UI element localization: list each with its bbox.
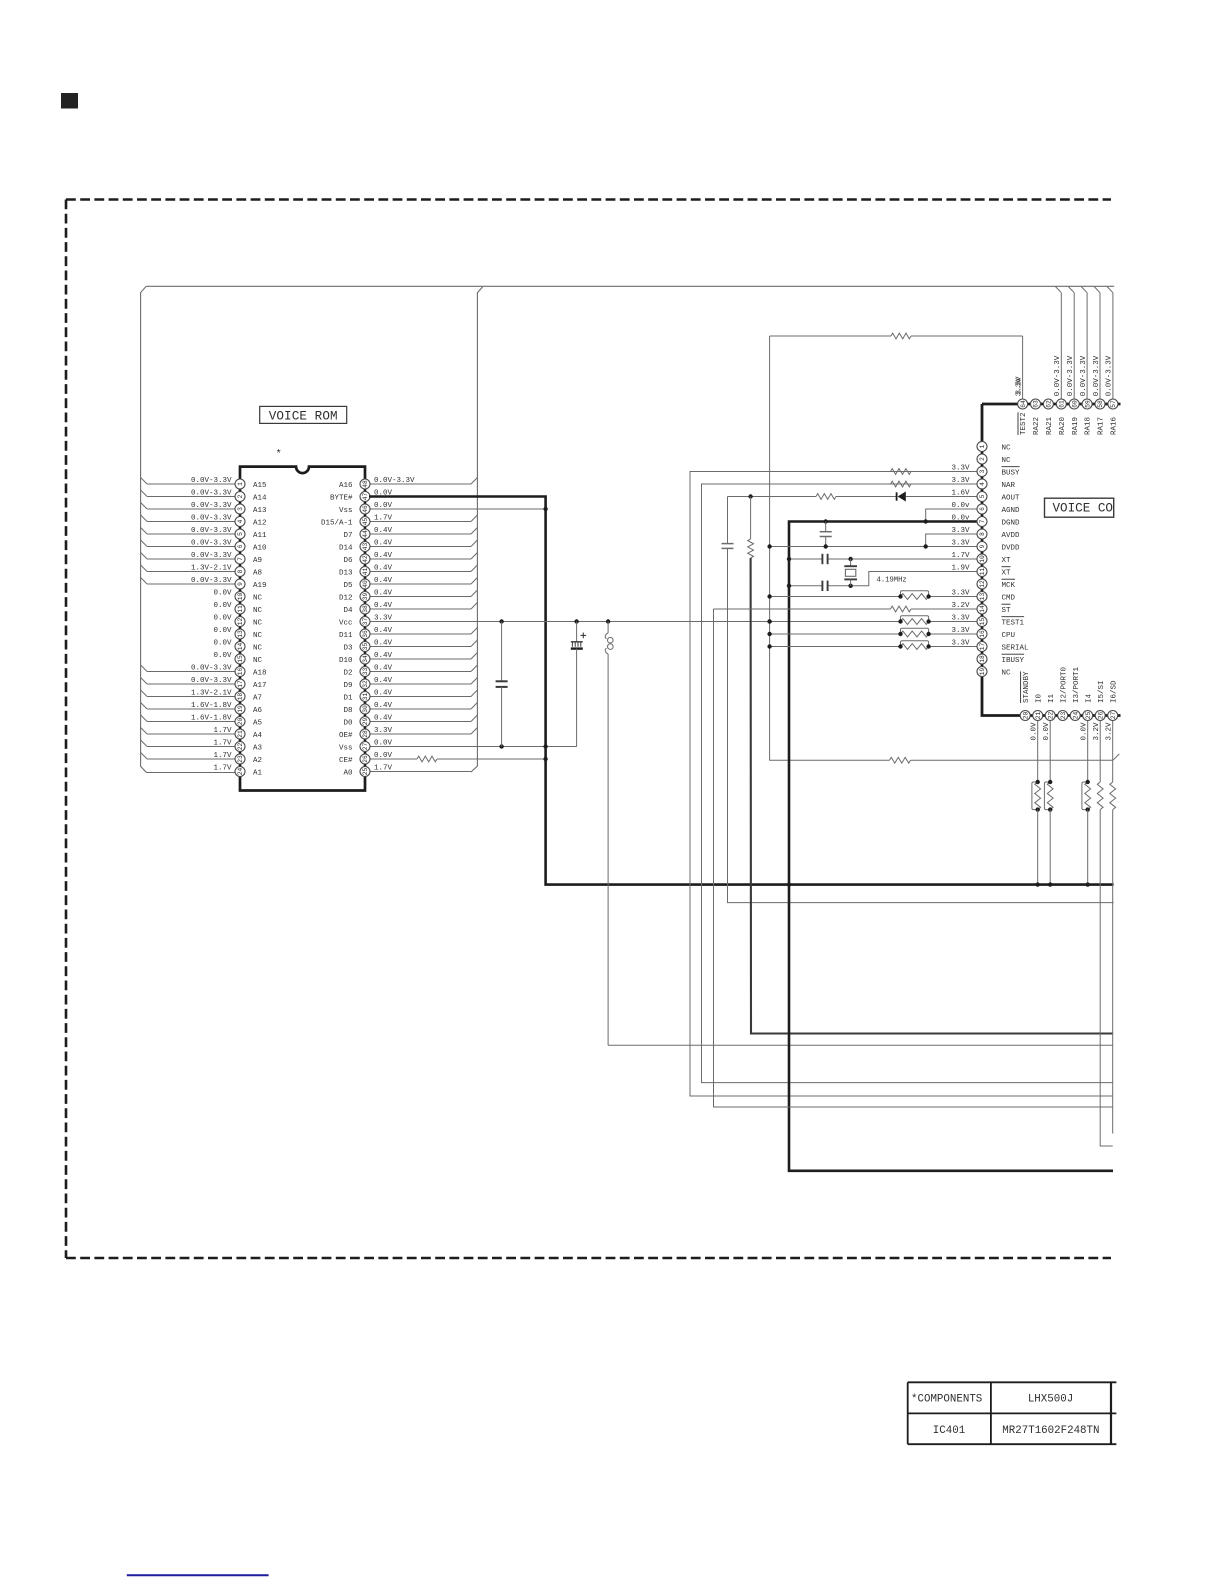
svg-text:48: 48 — [362, 480, 369, 488]
svg-text:0.4V: 0.4V — [374, 689, 393, 697]
svg-text:26: 26 — [1097, 712, 1104, 720]
svg-text:3.3V: 3.3V — [951, 589, 970, 597]
svg-text:0.0V-3.3V: 0.0V-3.3V — [191, 552, 232, 560]
capacitor C (Vcc bypass) — [496, 622, 508, 747]
svg-text:D12: D12 — [339, 594, 353, 602]
svg-text:28: 28 — [362, 730, 369, 738]
svg-text:3.2V: 3.2V — [1106, 722, 1114, 741]
svg-text:I1: I1 — [1048, 693, 1056, 703]
svg-text:17: 17 — [979, 643, 986, 651]
svg-text:27: 27 — [362, 743, 369, 751]
svg-text:0.4V: 0.4V — [374, 664, 393, 672]
svg-text:RA17: RA17 — [1098, 417, 1106, 435]
svg-text:VOICE CO: VOICE CO — [1053, 502, 1113, 516]
svg-text:0.0V: 0.0V — [213, 652, 232, 660]
sheet section mark (black square) — [61, 93, 78, 109]
IC401 pin 43 D14 — [339, 539, 477, 552]
IC401 pin 3 A13 — [141, 502, 267, 515]
svg-text:25: 25 — [362, 768, 369, 776]
resistor TEST2 pull-up — [891, 333, 911, 339]
svg-text:D1: D1 — [343, 694, 353, 702]
svg-text:1.7V: 1.7V — [951, 552, 970, 560]
svg-text:1: 1 — [237, 482, 244, 486]
svg-text:0.0V-3.3V: 0.0V-3.3V — [191, 677, 232, 685]
VOICE CONTROLLER pin 63 RA22 — [1031, 399, 1042, 435]
svg-text:D0: D0 — [343, 719, 353, 727]
capacitor C (AVDD bypass) — [820, 522, 832, 547]
svg-text:23: 23 — [237, 755, 244, 763]
svg-text:I5/SI: I5/SI — [1098, 680, 1106, 703]
wire CPU pin16 — [770, 633, 977, 635]
svg-text:A8: A8 — [253, 569, 262, 577]
svg-text:59: 59 — [1084, 400, 1091, 408]
svg-text:3.2V: 3.2V — [1093, 722, 1101, 741]
IC401 pin 48 A16 — [339, 477, 477, 490]
svg-text:NC: NC — [253, 644, 263, 652]
svg-text:13: 13 — [237, 630, 244, 638]
resistor on rail branch — [890, 754, 1120, 763]
svg-text:0.0V-3.3V: 0.0V-3.3V — [191, 489, 232, 497]
svg-text:AGND: AGND — [1002, 507, 1021, 515]
svg-text:BYTE#: BYTE# — [330, 494, 353, 502]
VOICE CONTROLLER pin 7 DGND — [951, 514, 1020, 527]
VOICE CONTROLLER pin 19 NC — [977, 667, 1011, 678]
svg-text:40: 40 — [362, 580, 369, 588]
IC401 pin 36 D11 — [339, 627, 477, 640]
svg-text:A19: A19 — [253, 582, 267, 590]
svg-text:9: 9 — [237, 582, 244, 586]
svg-text:D8: D8 — [343, 707, 352, 715]
svg-text:7: 7 — [237, 557, 244, 561]
IC401 pin 35 D3 — [343, 639, 477, 652]
junction Vss pin27 — [499, 744, 547, 748]
svg-text:RA22: RA22 — [1033, 417, 1041, 435]
svg-text:0.4V: 0.4V — [374, 677, 393, 685]
svg-text:60: 60 — [1071, 400, 1078, 408]
svg-text:A0: A0 — [343, 769, 353, 777]
svg-text:1: 1 — [979, 444, 986, 448]
svg-text:AOUT: AOUT — [1002, 494, 1021, 502]
IC401 pin 31 D1 — [343, 689, 477, 702]
wire NAR net — [702, 484, 1114, 1083]
IC401 pin 33 D2 — [343, 664, 477, 677]
IC401 pin 29 D0 — [343, 714, 477, 727]
svg-text:*: * — [276, 449, 282, 461]
resistor CMD — [767, 591, 930, 600]
IC401 pin 8 A8 — [141, 564, 262, 577]
VOICE CONTROLLER pin 23 I2/PORT0 — [1058, 666, 1069, 720]
svg-text:D10: D10 — [339, 657, 353, 665]
svg-text:0.4V: 0.4V — [374, 564, 393, 572]
IC401 pin 24 A1 — [146, 764, 262, 777]
svg-text:RA19: RA19 — [1072, 417, 1080, 435]
svg-text:RA21: RA21 — [1046, 416, 1054, 435]
VOICE CONTROLLER pin 18 IBUSY — [977, 654, 1025, 665]
IC401 pin 15 NC — [213, 652, 262, 665]
svg-text:0.4V: 0.4V — [374, 652, 393, 660]
address bus left side — [141, 286, 147, 772]
VOICE CONTROLLER pin 64 TEST2 — [1015, 378, 1028, 435]
svg-text:16: 16 — [979, 630, 986, 638]
svg-text:TEST1: TEST1 — [1002, 619, 1025, 627]
svg-text:62: 62 — [1046, 400, 1053, 408]
svg-text:18: 18 — [979, 655, 986, 663]
svg-text:4: 4 — [237, 519, 244, 523]
svg-text:21: 21 — [237, 730, 244, 738]
svg-text:ST: ST — [1002, 607, 1012, 615]
IC401 pin 16 A18 — [141, 664, 267, 677]
svg-text:0.0V-3.3V: 0.0V-3.3V — [1054, 355, 1062, 396]
svg-text:A18: A18 — [253, 669, 267, 677]
svg-text:STANDBY: STANDBY — [1023, 671, 1031, 703]
svg-text:15: 15 — [979, 618, 986, 626]
svg-text:22: 22 — [1047, 712, 1054, 720]
svg-text:34: 34 — [362, 655, 369, 663]
svg-text:42: 42 — [362, 555, 369, 563]
svg-text:A5: A5 — [253, 719, 263, 727]
svg-text:0.0V-3.3V: 0.0V-3.3V — [191, 477, 232, 485]
IC401 pin 25 A0 — [343, 764, 470, 777]
resistor AOUT shunt (vertical) — [748, 497, 1113, 1034]
IC401 pin 37 Vcc — [339, 614, 393, 627]
svg-text:15: 15 — [237, 655, 244, 663]
svg-text:4.19MHz: 4.19MHz — [877, 577, 907, 585]
svg-text:11: 11 — [979, 568, 986, 576]
svg-text:12: 12 — [237, 618, 244, 626]
VOICE CONTROLLER pin 8 AVDD — [951, 527, 1020, 540]
svg-text:NC: NC — [253, 657, 263, 665]
IC401 pin 27 Vss — [339, 739, 577, 752]
svg-text:NC: NC — [253, 594, 263, 602]
svg-text:0.4V: 0.4V — [374, 539, 393, 547]
svg-text:3: 3 — [237, 507, 244, 511]
svg-text:1.7V: 1.7V — [213, 764, 232, 772]
IC401 pin 47 BYTE# — [330, 489, 393, 502]
svg-text:21: 21 — [1035, 712, 1042, 720]
IC401 pin 12 NC — [213, 614, 262, 627]
capacitor C electrolytic (+) — [571, 622, 586, 747]
svg-text:19: 19 — [979, 668, 986, 676]
junction TEST1 rail — [767, 619, 771, 623]
svg-text:RA16: RA16 — [1111, 416, 1119, 435]
diode D (AOUT clamp) — [897, 492, 906, 502]
wire AGND pin6 — [926, 509, 977, 522]
IC401 pin 5 A11 — [141, 527, 267, 540]
svg-text:RA18: RA18 — [1085, 417, 1093, 435]
svg-text:36: 36 — [362, 630, 369, 638]
VOICE CONTROLLER pin 4 NAR — [951, 477, 1015, 490]
svg-text:D7: D7 — [343, 532, 352, 540]
svg-text:0.0V-3.3V: 0.0V-3.3V — [191, 664, 232, 672]
svg-text:33: 33 — [362, 668, 369, 676]
svg-text:18: 18 — [237, 693, 244, 701]
capacitor C (/XT) — [822, 581, 827, 591]
svg-text:Vcc: Vcc — [339, 619, 353, 627]
resistor CPU — [767, 628, 930, 637]
svg-text:SERIAL: SERIAL — [1002, 644, 1030, 652]
IC401 pin 46 Vss — [339, 502, 546, 515]
svg-text:A6: A6 — [253, 707, 263, 715]
wire AVDD pin8 — [926, 534, 977, 547]
VOICE CONTROLLER pin 58 RA17 — [1093, 287, 1106, 436]
junction Vcc/bypass caps — [499, 619, 771, 623]
svg-text:41: 41 — [362, 568, 369, 576]
svg-text:0.0V: 0.0V — [374, 739, 393, 747]
svg-text:3.3V: 3.3V — [951, 464, 970, 472]
wire 3.3V rail vertical — [770, 336, 890, 760]
svg-text:0.0V-3.3V: 0.0V-3.3V — [1080, 355, 1088, 396]
svg-text:14: 14 — [979, 605, 986, 613]
IC401 pin 1 A15 — [141, 477, 267, 490]
svg-text:*COMPONENTS: *COMPONENTS — [911, 1394, 982, 1406]
svg-text:0.0V-3.3V: 0.0V-3.3V — [191, 539, 232, 547]
svg-text:6: 6 — [237, 544, 244, 548]
wire XT pin10 — [789, 558, 977, 560]
wire Vcc 3.3V net (ROM pin37 to TEST1) — [370, 621, 977, 623]
svg-text:A12: A12 — [253, 519, 267, 527]
svg-text:I0: I0 — [1035, 693, 1043, 703]
VOICE CONTROLLER pin 6 AGND — [951, 502, 1020, 515]
svg-text:58: 58 — [1097, 400, 1104, 408]
svg-text:D5: D5 — [343, 582, 353, 590]
svg-text:D6: D6 — [343, 557, 353, 565]
svg-text:63: 63 — [1033, 400, 1040, 408]
svg-text:OE#: OE# — [339, 732, 353, 740]
wire CMD pin13 — [770, 596, 977, 598]
VOICE CONTROLLER pin 2 NC — [977, 454, 1011, 465]
svg-text:0.0V: 0.0V — [374, 752, 393, 760]
components table — [908, 1382, 1117, 1444]
VOICE CONTROLLER pin 13 CMD — [951, 589, 1015, 602]
svg-text:DGND: DGND — [1002, 519, 1021, 527]
VOICE CONTROLLER pin 20 STANDBY — [1020, 671, 1031, 721]
svg-text:12: 12 — [979, 580, 986, 588]
resistor SERIAL — [767, 641, 930, 650]
IC401 pin 7 A9 — [141, 552, 262, 565]
IC401 pin 10 NC — [213, 589, 262, 602]
wire AOUT net — [722, 497, 1114, 903]
svg-text:IC401: IC401 — [933, 1425, 965, 1437]
svg-text:3: 3 — [979, 469, 986, 473]
svg-text:A7: A7 — [253, 694, 262, 702]
VOICE CONTROLLER pin 21 I0 — [1031, 693, 1044, 886]
svg-text:8: 8 — [979, 532, 986, 536]
svg-text:37: 37 — [362, 618, 369, 626]
svg-text:20: 20 — [237, 718, 244, 726]
svg-text:0.0V-3.3V: 0.0V-3.3V — [1106, 355, 1114, 396]
resistor NAR — [891, 481, 912, 487]
svg-text:57: 57 — [1110, 400, 1117, 408]
VOICE CONTROLLER pin 11 XT — [951, 564, 1011, 577]
svg-text:30: 30 — [362, 705, 369, 713]
svg-text:19: 19 — [237, 705, 244, 713]
svg-text:9: 9 — [979, 544, 986, 548]
label 4.19MHz — [877, 577, 907, 585]
svg-text:26: 26 — [362, 755, 369, 763]
svg-text:1.6V: 1.6V — [951, 489, 970, 497]
footer blue rule — [127, 1574, 269, 1576]
svg-text:3.3V: 3.3V — [951, 614, 970, 622]
svg-text:3.3V: 3.3V — [374, 727, 393, 735]
svg-text:31: 31 — [362, 693, 369, 701]
svg-text:CMD: CMD — [1002, 594, 1016, 602]
svg-text:0.0V: 0.0V — [1081, 722, 1089, 741]
svg-text:1.7V: 1.7V — [213, 739, 232, 747]
svg-text:A15: A15 — [253, 482, 267, 490]
svg-text:16: 16 — [237, 668, 244, 676]
IC401 pin 40 D5 — [343, 577, 477, 590]
svg-text:0.0v: 0.0v — [951, 502, 970, 510]
VOICE ROM title box — [260, 406, 347, 423]
svg-text:0.4V: 0.4V — [374, 639, 393, 647]
svg-text:45: 45 — [362, 518, 369, 526]
IC401 pin-1 orientation mark — [276, 449, 282, 461]
IC401 pin 9 A19 — [141, 577, 267, 590]
svg-text:TEST2: TEST2 — [1020, 412, 1028, 435]
svg-text:NC: NC — [253, 619, 263, 627]
IC401 pin 2 A14 — [141, 489, 267, 502]
svg-text:35: 35 — [362, 643, 369, 651]
svg-text:D9: D9 — [343, 682, 352, 690]
wire DVDD pin9 — [770, 546, 977, 548]
svg-text:3.3V: 3.3V — [951, 527, 970, 535]
svg-text:A13: A13 — [253, 507, 267, 515]
svg-text:NC: NC — [1002, 444, 1012, 452]
VOICE CONTROLLER pin 22 I1 — [1043, 693, 1056, 886]
svg-text:0.0V: 0.0V — [213, 639, 232, 647]
svg-text:BUSY: BUSY — [1002, 469, 1021, 477]
wire /ST pin14 — [714, 609, 1114, 1107]
svg-text:D14: D14 — [339, 544, 353, 552]
resistor on TEST1 line — [898, 616, 931, 625]
svg-text:25: 25 — [1085, 712, 1092, 720]
svg-text:1.6V-1.8V: 1.6V-1.8V — [191, 702, 232, 710]
junction AOUT divider — [748, 494, 752, 498]
svg-text:3.3V: 3.3V — [951, 627, 970, 635]
svg-text:NC: NC — [253, 607, 263, 615]
IC401 pin 30 D8 — [343, 702, 477, 715]
svg-text:29: 29 — [362, 718, 369, 726]
svg-text:D4: D4 — [343, 607, 353, 615]
capacitor C (XT) — [822, 554, 827, 564]
VOICE CONTROLLER pin 9 DVDD — [951, 539, 1020, 552]
svg-text:2: 2 — [979, 457, 986, 461]
svg-text:4: 4 — [979, 482, 986, 486]
wire BYTE#/Vss ground net (thick) — [369, 497, 1114, 885]
svg-text:2: 2 — [237, 494, 244, 498]
svg-text:0.0V-3.3V: 0.0V-3.3V — [191, 502, 232, 510]
wire DGND net (thick) — [789, 522, 1113, 1171]
svg-text:D2: D2 — [343, 669, 352, 677]
svg-text:24: 24 — [237, 768, 244, 776]
resistor BUSY — [891, 469, 912, 475]
svg-text:A2: A2 — [253, 757, 262, 765]
svg-text:AVDD: AVDD — [1002, 532, 1021, 540]
svg-text:3.3V: 3.3V — [1015, 378, 1023, 397]
svg-text:A11: A11 — [253, 532, 267, 540]
svg-text:0.0V-3.3V: 0.0V-3.3V — [1093, 355, 1101, 396]
IC401 pin 34 D10 — [339, 652, 477, 665]
svg-text:0.0V: 0.0V — [213, 614, 232, 622]
IC401 pin 22 A3 — [141, 739, 263, 752]
svg-text:1.7V: 1.7V — [374, 514, 393, 522]
svg-text:Vss: Vss — [339, 744, 353, 752]
svg-text:20: 20 — [1022, 712, 1029, 720]
svg-text:0.0V-3.3V: 0.0V-3.3V — [191, 577, 232, 585]
IC401 VOICE ROM body — [240, 467, 365, 791]
svg-text:1.3V-2.1V: 1.3V-2.1V — [191, 689, 232, 697]
VOICE CONTROLLER pin 26 I5/SI — [1093, 680, 1113, 1146]
svg-text:61: 61 — [1059, 400, 1066, 408]
VOICE CONTROLLER pin 61 RA20 — [1054, 287, 1067, 436]
svg-text:27: 27 — [1110, 712, 1117, 720]
svg-text:5: 5 — [979, 494, 986, 498]
IC401 pin 23 A2 — [141, 752, 262, 765]
IC VOICE CONTROLLER body — [982, 404, 1121, 716]
svg-text:IBUSY: IBUSY — [1002, 657, 1025, 665]
svg-text:1.7V: 1.7V — [374, 764, 393, 772]
svg-text:MR27T1602F248TN: MR27T1602F248TN — [1002, 1425, 1099, 1437]
VOICE CONTROLLER pin 17 SERIAL — [951, 639, 1029, 652]
svg-text:38: 38 — [362, 605, 369, 613]
svg-text:D11: D11 — [339, 632, 353, 640]
svg-text:3.3V: 3.3V — [951, 477, 970, 485]
dashed page border — [66, 200, 1111, 1259]
IC401 pin 41 D13 — [339, 564, 477, 577]
IC401 pin 20 A5 — [141, 714, 263, 727]
svg-text:NC: NC — [1002, 457, 1012, 465]
svg-text:23: 23 — [1060, 712, 1067, 720]
svg-text:NC: NC — [253, 632, 263, 640]
IC401 pin 13 NC — [213, 627, 262, 640]
IC401 pin 18 A7 — [141, 689, 262, 702]
svg-text:46: 46 — [362, 505, 369, 513]
VOICE CONTROLLER pin 60 RA19 — [1067, 287, 1080, 436]
svg-text:I6/SD: I6/SD — [1110, 680, 1118, 703]
wire /XT pin11 — [789, 572, 977, 586]
svg-text:39: 39 — [362, 593, 369, 601]
IC401 pin 6 A10 — [141, 539, 267, 552]
svg-text:14: 14 — [237, 643, 244, 651]
svg-text:Vss: Vss — [339, 507, 353, 515]
svg-text:43: 43 — [362, 543, 369, 551]
svg-text:0.0V-3.3V: 0.0V-3.3V — [374, 477, 415, 485]
IC401 pin 26 CE# — [339, 752, 546, 765]
svg-text:64: 64 — [1020, 400, 1027, 408]
svg-text:RA20: RA20 — [1059, 416, 1067, 435]
svg-text:0.0V: 0.0V — [1031, 722, 1039, 741]
svg-text:A4: A4 — [253, 732, 263, 740]
junction DGND/cap — [824, 519, 928, 523]
VOICE CONTROLLER pin 27 I6/SD — [1106, 680, 1119, 1134]
IC401 pin 19 A6 — [141, 702, 263, 715]
svg-text:0.4V: 0.4V — [374, 552, 393, 560]
IC401 pin 17 A17 — [141, 677, 267, 690]
svg-text:A3: A3 — [253, 744, 263, 752]
svg-text:24: 24 — [1072, 712, 1079, 720]
svg-text:0.4V: 0.4V — [374, 589, 393, 597]
VOICE CONTROLLER pin 3 BUSY — [951, 464, 1020, 477]
junction CE# pin26 — [543, 757, 547, 761]
svg-text:NC: NC — [1002, 669, 1012, 677]
IC401 pin 45 D15/A-1 — [321, 514, 477, 527]
IC401 pin 39 D12 — [339, 589, 477, 602]
wire BUSY net — [690, 472, 1113, 1097]
VOICE CONTROLLER pin 57 RA16 — [1106, 287, 1119, 436]
svg-text:1.7V: 1.7V — [213, 727, 232, 735]
junction XT/crystal — [787, 557, 853, 588]
svg-text:D15/A-1: D15/A-1 — [321, 519, 353, 527]
